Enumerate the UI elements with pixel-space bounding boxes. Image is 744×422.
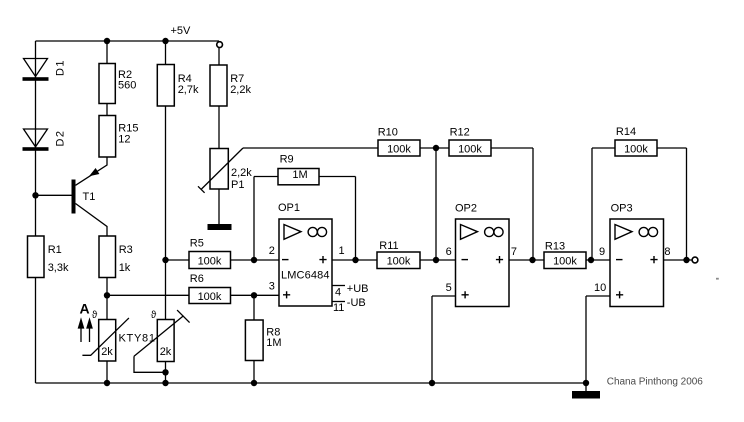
node OP3 output: [683, 257, 689, 263]
resistor R1: [28, 236, 45, 278]
wire P1 wiper to R10 horizontal: [243, 147, 378, 149]
wire OP1 pin11 -UB stub: [332, 301, 345, 303]
svg-text:R10: R10: [378, 127, 398, 139]
svg-text:10: 10: [594, 282, 606, 294]
wire P1 to ground symbol: [218, 189, 220, 224]
svg-text:R9: R9: [280, 153, 294, 165]
svg-text:R6: R6: [190, 273, 204, 285]
svg-text:8: 8: [664, 246, 670, 258]
svg-text:R11: R11: [379, 240, 398, 252]
svg-text:100k: 100k: [198, 255, 222, 267]
node rail ground: [583, 380, 589, 386]
terminal output circle: [692, 257, 698, 263]
resistor R2: [99, 64, 115, 104]
node OP2 output: [529, 257, 535, 263]
thermistor KTY81 diagonal: [82, 318, 128, 355]
op-amp OP3 box: [610, 219, 664, 307]
wire node R4 to R5 left: [166, 259, 190, 261]
svg-text:2k: 2k: [160, 346, 172, 358]
node rail R8: [251, 380, 257, 386]
node OP2 pin6: [433, 257, 439, 263]
potentiometer P1 wiper tick: [198, 186, 205, 193]
diode D2: [23, 129, 49, 151]
svg-text:1: 1: [339, 245, 345, 257]
wire R5 right to OP1 pin2: [231, 259, 280, 261]
node R10 R12: [433, 145, 439, 151]
wire R10 to R12: [420, 147, 449, 149]
node rail KTY81: [104, 380, 110, 386]
svg-text:11: 11: [333, 302, 344, 314]
svg-text:Chana Pinthong 2006: Chana Pinthong 2006: [607, 377, 703, 388]
svg-text:4: 4: [335, 287, 341, 299]
svg-text:560: 560: [118, 80, 136, 92]
node rail OP2 pin5: [429, 380, 435, 386]
node rail P2: [162, 380, 168, 386]
wire R14 left to OP3 pin9 node: [592, 148, 615, 260]
svg-text:P1: P1: [231, 179, 244, 191]
wire KTY81 to ground rail: [106, 361, 108, 383]
svg-text:7: 7: [511, 246, 517, 258]
wire R7 to P1: [218, 106, 220, 149]
svg-text:100k: 100k: [387, 256, 411, 268]
wire OP2 pin5 to ground rail: [432, 296, 456, 383]
svg-text:2,7k: 2,7k: [178, 84, 199, 96]
wire OP1 pin4 +UB stub: [332, 285, 345, 287]
wire R3 to KTY81: [106, 278, 108, 320]
wire OP1 output pin1 to R11: [332, 259, 377, 261]
wire R12 right to OP2 output: [491, 148, 533, 260]
svg-text:D1: D1: [55, 61, 67, 77]
op-amp OP1 internals: [282, 225, 327, 299]
resistor R3: [99, 236, 116, 278]
wire R6 right to OP1 pin3: [231, 294, 280, 296]
node R4 top: [162, 38, 168, 44]
svg-text:2,2k: 2,2k: [230, 84, 251, 96]
wire node B to R6 left: [107, 294, 189, 296]
wire left branch D1 D2 R1 vertical: [35, 41, 37, 383]
op-amp OP2 internals: [461, 225, 504, 299]
node T1 base: [32, 192, 38, 198]
node R2 top: [104, 38, 110, 44]
svg-text:+5V: +5V: [171, 25, 192, 37]
potentiometer P1 body: [210, 149, 228, 190]
trimmer P2 body: [157, 320, 174, 362]
transistor Q T1 base bar: [72, 180, 76, 214]
svg-text:100k: 100k: [198, 291, 222, 303]
node OP3 pin9: [588, 257, 594, 263]
wire +5V terminal to R7: [218, 48, 220, 66]
svg-text:-UB: -UB: [347, 297, 366, 309]
resistor R13: [544, 252, 586, 269]
svg-text:A: A: [80, 301, 90, 317]
thermistor KTY81 body: [99, 320, 116, 362]
wire R4 top stub: [165, 41, 167, 65]
potentiometer P1 wiper diagonal: [201, 148, 243, 190]
svg-text:100k: 100k: [387, 144, 411, 156]
svg-text:R14: R14: [616, 126, 636, 138]
stray mark: [716, 278, 719, 280]
svg-text:R12: R12: [450, 127, 470, 139]
svg-text:1k: 1k: [119, 262, 131, 274]
ground under P1: [208, 224, 232, 230]
svg-text:R13: R13: [545, 241, 565, 253]
resistor R10: [378, 140, 420, 156]
node OP1 pin2: [251, 257, 257, 263]
wire thermistor P2 to ground rail: [165, 362, 167, 384]
svg-text:ϑ: ϑ: [92, 310, 98, 321]
wire T1 base: [36, 194, 72, 196]
svg-text:OP3: OP3: [611, 203, 633, 215]
resistor R4: [157, 65, 174, 107]
wire OP1 pin3 node to R8: [253, 295, 255, 320]
svg-text:100k: 100k: [624, 144, 648, 156]
resistor R11: [377, 252, 420, 269]
svg-text:T1: T1: [83, 191, 96, 203]
wire R2 top stub: [106, 41, 108, 64]
op-amp OP3 internals: [615, 225, 658, 299]
resistor R6: [189, 288, 231, 304]
op-amp OP2 box: [456, 219, 510, 307]
node R6 left: [104, 292, 110, 298]
svg-text:+UB: +UB: [347, 283, 369, 295]
svg-text:D2: D2: [55, 131, 67, 147]
wire R2 to R15 stub: [106, 104, 108, 116]
svg-text:9: 9: [599, 246, 605, 258]
node P2 wiper: [162, 369, 168, 375]
svg-text:OP1: OP1: [278, 202, 300, 214]
svg-text:OP2: OP2: [455, 203, 477, 215]
transistor T1 emitter arrow: [89, 168, 99, 176]
resistor R15: [99, 116, 116, 158]
resistor R14: [615, 140, 657, 156]
diode D1: [23, 59, 49, 81]
resistor R5: [189, 252, 231, 269]
svg-text:5: 5: [446, 282, 452, 294]
terminal +5V circle: [217, 42, 223, 48]
node OP1 output: [352, 257, 358, 263]
svg-text:2,2k: 2,2k: [231, 167, 252, 179]
resistor R7: [210, 65, 227, 106]
resistor R8: [245, 320, 263, 361]
svg-text:6: 6: [446, 246, 452, 258]
wire R10 R12 node down to OP2 pin6: [435, 148, 437, 260]
ground bottom right: [572, 391, 600, 399]
trimmer P2 wiper diagonal: [134, 316, 184, 356]
svg-text:3,3k: 3,3k: [48, 262, 69, 274]
svg-text:100k: 100k: [553, 256, 577, 268]
wire OP3 output pin8 to terminal: [664, 259, 693, 261]
wire ground rail bottom: [36, 382, 589, 384]
wire T1 collector to R3: [76, 204, 108, 237]
svg-text:ϑ: ϑ: [151, 310, 157, 321]
svg-text:1M: 1M: [292, 169, 307, 181]
svg-text:R3: R3: [119, 244, 133, 256]
svg-text:2: 2: [269, 245, 275, 257]
wire OP2 output pin7 to R13: [509, 259, 544, 261]
svg-text:R5: R5: [190, 238, 204, 250]
svg-text:1M: 1M: [266, 337, 281, 349]
node R5 left: [162, 257, 168, 263]
trimmer P2 wiper tick: [177, 310, 190, 323]
svg-text:12: 12: [118, 134, 130, 146]
resistor R9: [278, 169, 319, 185]
node OP1 pin3: [251, 292, 257, 298]
wire thermistor P2 wiper to bottom node: [134, 356, 166, 372]
svg-text:KTY81: KTY81: [119, 333, 156, 345]
op-amp OP1 box: [279, 219, 332, 306]
wire R8 to ground rail: [253, 361, 255, 384]
svg-text:LMC6484: LMC6484: [281, 270, 330, 282]
svg-text:R1: R1: [48, 244, 62, 256]
wire R9 left to OP1 pin2 node: [254, 177, 278, 261]
wire R13 right to OP3 pin9: [586, 259, 610, 261]
wire R9 right to OP1 output node: [319, 177, 356, 261]
wire R11 right to OP2 pin6: [420, 259, 456, 261]
svg-text:2k: 2k: [101, 346, 113, 358]
wire +5V top rail: [36, 40, 220, 42]
svg-text:3: 3: [269, 280, 275, 292]
current arrows annotation: [79, 320, 93, 343]
wire ground stub bottom right: [585, 383, 587, 391]
svg-text:100k: 100k: [458, 144, 482, 156]
resistor R12: [449, 140, 491, 156]
wire R4 to thermistor P2 vertical: [165, 106, 167, 320]
wire R15 to T1 emitter: [76, 157, 108, 185]
wire OP3 pin10 to ground rail: [586, 296, 610, 383]
wire R14 right to OP3 output node: [657, 148, 687, 260]
